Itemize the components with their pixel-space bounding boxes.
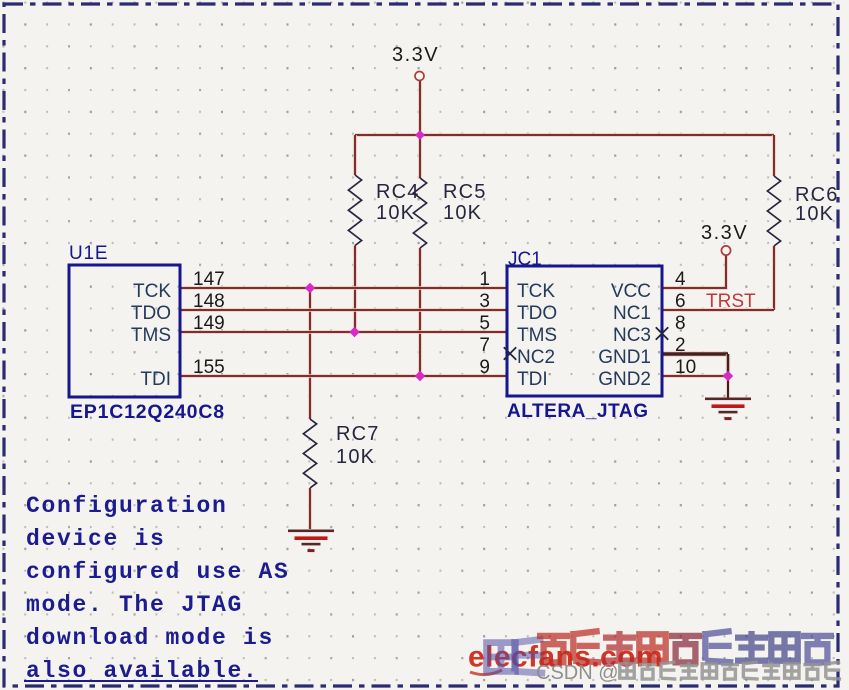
resistor RC7 — [308, 288, 312, 419]
power symbol 3.3V (JC1) — [721, 246, 730, 255]
watermark swoosh — [470, 670, 502, 675]
wire: GND1 pin2 (thick) — [662, 351, 728, 357]
svg-text:ALTERA_JTAG: ALTERA_JTAG — [507, 401, 649, 422]
svg-text:download mode is: download mode is — [26, 625, 274, 651]
power symbol 3.3V (top) — [415, 72, 424, 81]
svg-text:TMS: TMS — [517, 325, 557, 346]
svg-text:VCC: VCC — [611, 281, 651, 302]
svg-text:3.3V: 3.3V — [701, 222, 748, 244]
svg-text:147: 147 — [193, 269, 225, 290]
svg-text:148: 148 — [193, 291, 225, 312]
svg-text:JC1: JC1 — [508, 249, 542, 270]
resistor RC6 — [772, 135, 776, 176]
wire: 3.3V stub to top rail — [418, 81, 422, 135]
wire: TCK net U1E to JC1 — [180, 286, 507, 290]
svg-text:RC5: RC5 — [443, 181, 487, 203]
svg-text:155: 155 — [193, 357, 225, 378]
svg-text:3: 3 — [479, 291, 490, 312]
no-connect X NC2 — [504, 347, 516, 359]
ground (JC1) — [705, 398, 751, 401]
svg-text:8: 8 — [675, 313, 686, 334]
svg-text:10K: 10K — [795, 203, 834, 225]
svg-text:TMS: TMS — [131, 325, 171, 346]
ground (RC7) — [288, 530, 334, 533]
svg-text:TCK: TCK — [517, 281, 555, 302]
svg-text:NC2: NC2 — [517, 347, 555, 368]
svg-text:9: 9 — [479, 357, 490, 378]
wire: VCC pin4 to 3.3V — [662, 256, 726, 289]
svg-text:TCK: TCK — [133, 281, 171, 302]
svg-text:3.3V: 3.3V — [392, 44, 439, 66]
svg-text:TDO: TDO — [131, 303, 171, 324]
connector JC1 — [507, 266, 662, 396]
svg-text:U1E: U1E — [69, 243, 108, 264]
node: GND junction — [723, 371, 733, 381]
svg-text:10: 10 — [675, 357, 696, 378]
svg-text:Configuration: Configuration — [26, 493, 228, 519]
svg-text:GND1: GND1 — [598, 347, 651, 368]
svg-text:TDO: TDO — [517, 303, 557, 324]
wire: GND2 pin10 — [662, 374, 728, 378]
svg-text:configured use AS: configured use AS — [26, 559, 290, 585]
svg-text:TRST: TRST — [706, 291, 756, 312]
svg-text:10K: 10K — [443, 202, 482, 224]
svg-text:149: 149 — [193, 313, 225, 334]
svg-text:TDI: TDI — [140, 369, 171, 390]
svg-text:6: 6 — [675, 291, 686, 312]
svg-text:10K: 10K — [336, 446, 375, 468]
svg-text:2: 2 — [675, 335, 686, 356]
svg-text:NC1: NC1 — [613, 303, 651, 324]
svg-text:device is: device is — [26, 526, 166, 552]
svg-text:CSDN @: CSDN @ — [536, 662, 619, 684]
svg-text:RC4: RC4 — [376, 181, 420, 203]
watermark chinese red/blue glyph blobs — [487, 643, 516, 672]
svg-text:TDI: TDI — [517, 369, 548, 390]
svg-text:NC3: NC3 — [613, 325, 651, 346]
no-connect X NC3 — [656, 327, 668, 339]
resistor RC4 — [353, 135, 357, 175]
node: top rail junction — [415, 130, 425, 140]
wire: ground stub — [726, 376, 730, 398]
IC U1E (FPGA JTAG port) — [69, 265, 180, 397]
node: TCK/RC7 junction — [305, 283, 315, 293]
svg-text:4: 4 — [675, 269, 686, 290]
wire: TMS net — [180, 330, 507, 334]
wire: TDI net — [180, 374, 507, 378]
node: TDI/RC5 junction — [415, 371, 425, 381]
svg-text:10K: 10K — [376, 202, 415, 224]
node: TMS/RC4 junction — [349, 327, 359, 337]
svg-text:7: 7 — [479, 335, 490, 356]
wire: TDO net — [180, 308, 507, 312]
wire: top 3.3V rail — [355, 133, 774, 137]
svg-text:RC7: RC7 — [336, 423, 380, 445]
svg-text:5: 5 — [479, 313, 490, 334]
resistor RC5 — [418, 135, 422, 178]
svg-text:GND2: GND2 — [598, 369, 651, 390]
wire: TRST net pin6 to RC6 — [662, 308, 774, 312]
svg-text:EP1C12Q240C8: EP1C12Q240C8 — [70, 401, 225, 423]
svg-text:1: 1 — [479, 269, 490, 290]
svg-text:mode. The JTAG: mode. The JTAG — [26, 592, 243, 618]
